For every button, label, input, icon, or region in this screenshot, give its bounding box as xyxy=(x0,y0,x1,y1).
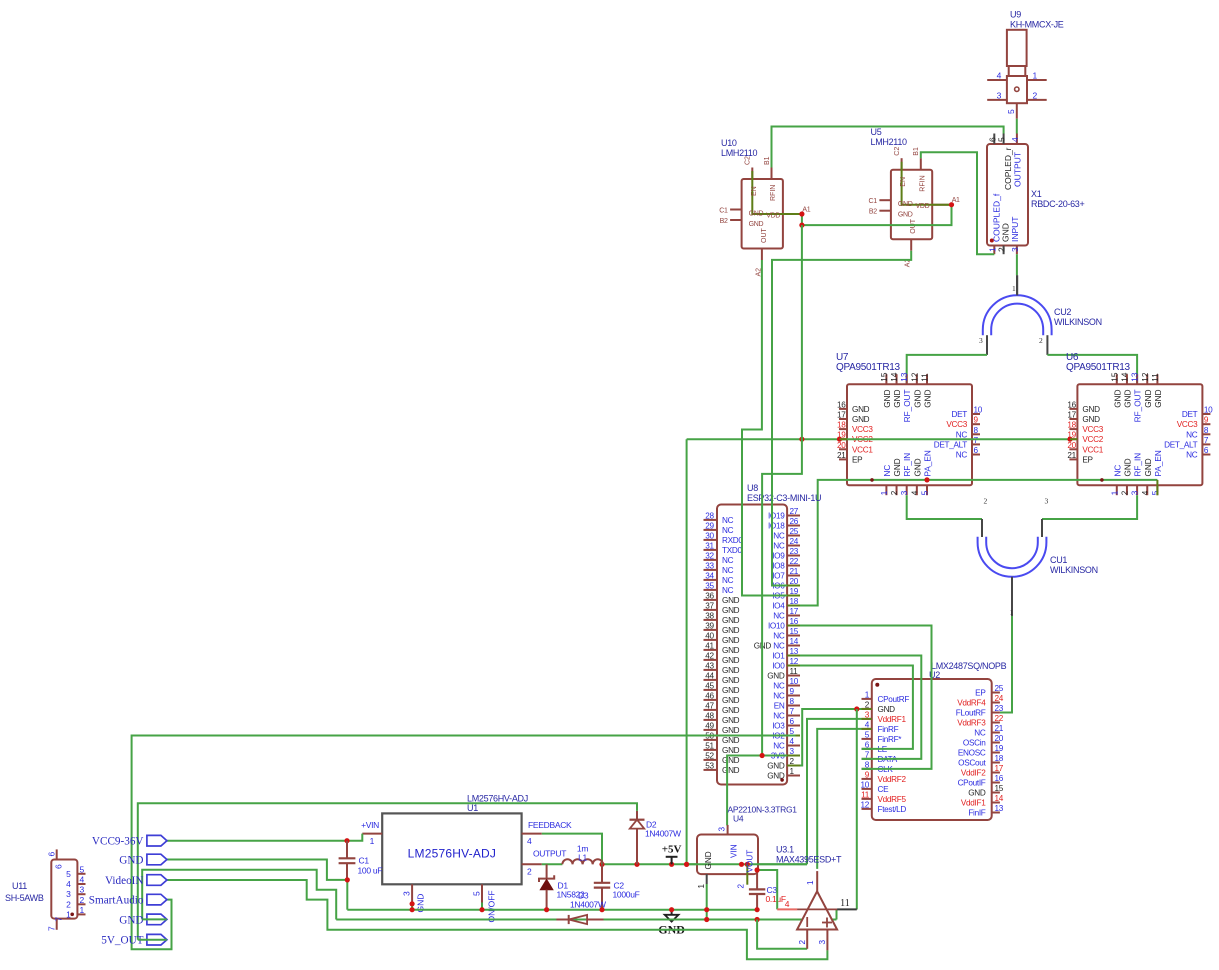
junction U5.A1 xyxy=(949,202,954,207)
svg-text:CE: CE xyxy=(878,785,890,794)
svg-text:GND: GND xyxy=(878,705,896,714)
svg-text:21: 21 xyxy=(995,724,1004,733)
svg-text:25: 25 xyxy=(790,527,799,536)
svg-text:TXD0: TXD0 xyxy=(722,546,742,555)
svg-text:1: 1 xyxy=(1010,608,1014,617)
svg-text:NC: NC xyxy=(1113,465,1122,477)
hierarchical label VideoIN xyxy=(105,875,167,887)
svg-text:NC: NC xyxy=(773,742,785,751)
svg-text:WILKINSON: WILKINSON xyxy=(1054,317,1102,327)
svg-text:7: 7 xyxy=(1204,436,1209,445)
svg-text:1: 1 xyxy=(80,905,85,915)
svg-text:NC: NC xyxy=(1186,430,1198,439)
U7 pin names xyxy=(852,389,968,476)
svg-text:1: 1 xyxy=(1012,284,1016,293)
svg-text:18: 18 xyxy=(995,754,1004,763)
CU1 pin numbers xyxy=(984,497,1049,618)
svg-text:RF_IN: RF_IN xyxy=(903,453,912,477)
wire GND2 through label xyxy=(142,918,167,920)
svg-text:6: 6 xyxy=(1204,446,1209,455)
svg-text:L1: L1 xyxy=(578,853,587,863)
svg-text:1: 1 xyxy=(880,490,889,495)
svg-text:2: 2 xyxy=(80,895,85,905)
svg-text:1: 1 xyxy=(697,884,706,889)
junction U4 area xyxy=(739,862,744,867)
svg-text:U1: U1 xyxy=(467,803,478,813)
U10 pin names xyxy=(749,185,781,243)
svg-text:25: 25 xyxy=(995,684,1004,693)
svg-text:GND: GND xyxy=(722,656,740,665)
svg-text:EN: EN xyxy=(774,702,785,711)
junction C3 rail1 xyxy=(755,907,760,912)
svg-text:RFIN: RFIN xyxy=(920,175,927,191)
svg-text:13: 13 xyxy=(900,372,909,382)
svg-text:12: 12 xyxy=(860,800,869,809)
junction A1 drop on bus xyxy=(799,437,804,442)
svg-text:46: 46 xyxy=(705,691,714,700)
svg-text:VCC1: VCC1 xyxy=(852,445,873,454)
svg-text:11: 11 xyxy=(861,790,870,799)
svg-text:16: 16 xyxy=(837,400,846,409)
svg-text:RBDC-20-63+: RBDC-20-63+ xyxy=(1031,199,1085,209)
wire X1.3 to CU2.1 xyxy=(1016,254,1018,295)
svg-text:DET: DET xyxy=(1182,410,1198,419)
svg-text:SH-5AWB: SH-5AWB xyxy=(5,893,44,903)
wire CU2.2 to U6 RF_OUT xyxy=(1047,355,1137,384)
svg-text:LM2576HV-ADJ: LM2576HV-ADJ xyxy=(467,794,528,804)
svg-text:5: 5 xyxy=(921,490,930,495)
svg-text:7: 7 xyxy=(974,436,979,445)
junction C3 rail2 xyxy=(755,917,760,922)
svg-text:31: 31 xyxy=(705,541,714,550)
junction U1 pin3 xyxy=(410,901,415,912)
junction U4 GND rail1 xyxy=(704,907,709,922)
svg-text:14: 14 xyxy=(1120,372,1129,382)
wire SmartAudio to U8 IO2 xyxy=(132,736,796,950)
svg-text:3: 3 xyxy=(80,885,85,895)
svg-text:3: 3 xyxy=(1131,490,1140,495)
junction U4 VOUT xyxy=(745,862,750,867)
svg-text:U10: U10 xyxy=(721,138,737,148)
connector U9 KH-MMCX-JE body xyxy=(987,30,1046,119)
svg-text:39: 39 xyxy=(705,621,714,630)
svg-text:GND: GND xyxy=(722,626,740,635)
svg-text:GND: GND xyxy=(722,616,740,625)
svg-text:VDD: VDD xyxy=(916,203,930,210)
svg-text:5: 5 xyxy=(1006,109,1016,114)
svg-text:GND: GND xyxy=(968,789,986,798)
label U4 refdes xyxy=(728,805,798,824)
svg-text:CPoutRF: CPoutRF xyxy=(878,695,910,704)
svg-text:17: 17 xyxy=(790,607,799,616)
svg-text:GND: GND xyxy=(722,686,740,695)
svg-text:17: 17 xyxy=(837,411,846,420)
svg-text:+5V: +5V xyxy=(662,844,682,856)
svg-text:22: 22 xyxy=(790,557,799,566)
junction C1 top xyxy=(344,838,349,843)
inductor L1 xyxy=(562,859,602,864)
U6 pin numbers xyxy=(1067,372,1213,495)
QPA VCC2 stub overlays xyxy=(840,438,1078,440)
svg-text:34: 34 xyxy=(705,571,714,580)
svg-text:4: 4 xyxy=(910,490,919,495)
wire U1 GND pin to rail xyxy=(411,903,413,910)
svg-text:IO1: IO1 xyxy=(772,652,785,661)
label U8 refdes xyxy=(747,483,821,503)
svg-text:IO7: IO7 xyxy=(772,572,785,581)
svg-text:5V_OUT: 5V_OUT xyxy=(101,935,143,947)
svg-text:NC: NC xyxy=(773,532,785,541)
svg-text:13: 13 xyxy=(1131,372,1140,382)
U6 pin names xyxy=(1082,389,1198,476)
svg-text:7: 7 xyxy=(47,926,57,931)
wire 3V3 node at U8 xyxy=(727,756,795,826)
svg-text:6: 6 xyxy=(54,864,64,869)
label U10 refdes xyxy=(721,138,758,158)
svg-text:GND: GND xyxy=(722,726,740,735)
junction VCC bus drop xyxy=(684,862,689,867)
svg-text:9: 9 xyxy=(1204,416,1209,425)
svg-text:EP: EP xyxy=(1082,455,1093,464)
svg-text:6: 6 xyxy=(790,717,795,726)
svg-text:MAX4395ESD+T: MAX4395ESD+T xyxy=(776,855,842,865)
wire 5V_OUT to D2 top xyxy=(138,803,637,939)
svg-text:GND: GND xyxy=(722,646,740,655)
capacitor C1 xyxy=(339,841,356,880)
svg-text:18: 18 xyxy=(837,421,846,430)
svg-text:VddRF2: VddRF2 xyxy=(878,775,907,784)
label C3 value xyxy=(766,885,786,904)
U1 pin numbers xyxy=(370,836,532,896)
junction U7 PA_EN xyxy=(924,477,929,482)
hierarchical label GND xyxy=(119,914,167,926)
U2 stub overlays VddRF1 FinRF xyxy=(862,719,872,729)
U2 pin numbers xyxy=(860,684,1003,813)
U5 pin numbers xyxy=(869,147,961,268)
svg-text:GND: GND xyxy=(1113,389,1122,407)
label U1 refdes xyxy=(467,794,528,814)
U8 internal dot xyxy=(780,778,784,782)
svg-text:45: 45 xyxy=(705,681,714,690)
svg-text:10: 10 xyxy=(860,780,869,789)
svg-text:14: 14 xyxy=(790,637,799,646)
svg-text:VCC9-36V: VCC9-36V xyxy=(92,836,144,848)
svg-text:GND: GND xyxy=(893,458,902,476)
svg-text:PA_EN: PA_EN xyxy=(924,450,933,476)
svg-text:NC: NC xyxy=(722,526,734,535)
U1 title xyxy=(408,847,496,861)
svg-text:OUT: OUT xyxy=(761,228,768,244)
svg-text:1: 1 xyxy=(806,880,815,885)
svg-text:11: 11 xyxy=(921,373,930,382)
wire CU1.1 to U2 FLoutRF xyxy=(1000,616,1012,713)
svg-text:GND: GND xyxy=(722,746,740,755)
label D2 value xyxy=(645,820,681,839)
wire U5.A2 to U8 IO6 xyxy=(772,251,911,586)
svg-text:1000uF: 1000uF xyxy=(613,890,640,900)
svg-text:24: 24 xyxy=(790,537,799,546)
U2 LE DATA CLK GND stub overlays xyxy=(862,709,872,769)
svg-text:47: 47 xyxy=(705,701,714,710)
svg-text:GND: GND xyxy=(1144,458,1153,476)
RF amplifier U6 QPA9501TR13 body xyxy=(1069,374,1210,495)
diode D2 1N4007W xyxy=(630,811,645,864)
label U5 refdes xyxy=(871,127,908,147)
svg-text:1: 1 xyxy=(370,836,375,846)
CU2 pin numbers xyxy=(979,284,1043,345)
svg-text:15: 15 xyxy=(1110,372,1119,382)
capacitor C3 xyxy=(749,870,765,910)
U4 VOUT pin overlay xyxy=(746,864,748,884)
svg-text:9: 9 xyxy=(790,687,795,696)
svg-text:4: 4 xyxy=(1010,137,1020,142)
svg-text:U5: U5 xyxy=(871,127,882,137)
svg-text:PA_EN: PA_EN xyxy=(1154,450,1163,476)
svg-text:IO3: IO3 xyxy=(772,722,785,731)
svg-text:GND: GND xyxy=(722,766,740,775)
svg-text:23: 23 xyxy=(995,704,1004,713)
wire U8.2 GND to U2.2 xyxy=(796,709,862,766)
svg-text:GND: GND xyxy=(722,706,740,715)
svg-text:LMX2487SQ/NOPB: LMX2487SQ/NOPB xyxy=(931,661,1007,671)
svg-text:IO8: IO8 xyxy=(772,562,785,571)
wire PA_EN net from U8 IO4 xyxy=(796,480,1158,606)
svg-text:8: 8 xyxy=(974,426,979,435)
op-amp U3.1 MAX4395ESD+T xyxy=(777,871,857,950)
svg-text:1: 1 xyxy=(790,767,795,776)
svg-text:7: 7 xyxy=(790,707,795,716)
svg-text:NC: NC xyxy=(773,632,785,641)
svg-text:GND: GND xyxy=(704,851,713,869)
svg-text:2: 2 xyxy=(527,867,532,877)
U11 pin1 dot xyxy=(70,913,74,917)
svg-text:4: 4 xyxy=(80,875,85,885)
svg-text:26: 26 xyxy=(790,517,799,526)
svg-text:OUTPUT: OUTPUT xyxy=(533,849,566,859)
svg-text:4: 4 xyxy=(785,899,790,909)
CU2 pins xyxy=(987,275,1047,355)
svg-text:GND: GND xyxy=(913,458,922,476)
svg-text:IO18: IO18 xyxy=(768,522,785,531)
svg-text:44: 44 xyxy=(705,671,714,680)
svg-text:NC: NC xyxy=(956,430,968,439)
svg-text:VideoIN: VideoIN xyxy=(105,875,143,887)
svg-text:B2: B2 xyxy=(720,218,728,225)
U8 stub overlays xyxy=(787,586,800,766)
svg-text:IO4: IO4 xyxy=(772,602,785,611)
svg-text:NC: NC xyxy=(773,682,785,691)
svg-text:GND: GND xyxy=(893,389,902,407)
ground symbol GND xyxy=(658,910,685,937)
coupler CU2 WILKINSON arc xyxy=(983,295,1052,335)
U8 pin names xyxy=(722,512,785,781)
svg-text:RF_IN: RF_IN xyxy=(1134,453,1143,477)
svg-text:EN: EN xyxy=(900,177,907,187)
svg-text:C1: C1 xyxy=(359,856,370,866)
label U9 refdes xyxy=(1010,10,1064,30)
svg-text:NC: NC xyxy=(773,642,785,651)
svg-text:EP: EP xyxy=(975,689,986,698)
label L1 value xyxy=(577,844,588,863)
svg-text:GND: GND xyxy=(722,716,740,725)
svg-text:DET: DET xyxy=(952,410,968,419)
wire U2 FinRF to opamp out xyxy=(817,729,861,869)
wire U4 GND pin to rails xyxy=(706,884,708,920)
svg-text:NC: NC xyxy=(722,566,734,575)
svg-text:51: 51 xyxy=(705,741,714,750)
svg-text:3: 3 xyxy=(402,891,412,896)
svg-text:3: 3 xyxy=(1045,497,1049,506)
wire GND to opamp pin11 xyxy=(856,709,858,910)
regulator U4 AP2210N-3.3TRG1 body xyxy=(697,825,758,884)
svg-text:8: 8 xyxy=(1204,426,1209,435)
svg-text:12: 12 xyxy=(910,372,919,382)
wire GND to opamp pin2 xyxy=(757,920,807,949)
wire U8 IO10 to U2 CLK xyxy=(796,626,932,769)
svg-text:C2: C2 xyxy=(894,147,901,156)
svg-text:VCC1: VCC1 xyxy=(1082,445,1103,454)
svg-text:GND: GND xyxy=(1154,389,1163,407)
svg-text:1N4007W: 1N4007W xyxy=(570,900,606,910)
svg-text:1: 1 xyxy=(66,909,71,919)
svg-text:LMH2110: LMH2110 xyxy=(871,137,908,147)
power detector U5 LMH2110 body xyxy=(879,158,951,251)
svg-text:NC: NC xyxy=(883,465,892,477)
svg-text:B1: B1 xyxy=(764,156,771,165)
junction D2 anode xyxy=(634,862,639,867)
diode D1 1N5822 xyxy=(539,864,554,909)
svg-text:2: 2 xyxy=(890,490,899,495)
svg-text:10: 10 xyxy=(974,406,983,415)
svg-text:20: 20 xyxy=(995,734,1004,743)
U5 pin names xyxy=(898,175,930,233)
svg-text:ESP32-C3-MINI-1U: ESP32-C3-MINI-1U xyxy=(747,493,821,503)
label X1 refdes xyxy=(1031,189,1085,209)
svg-text:4: 4 xyxy=(1141,490,1150,495)
svg-text:28: 28 xyxy=(705,511,714,520)
wire VOUT to opamp supply xyxy=(757,870,777,909)
svg-text:GND: GND xyxy=(767,762,785,771)
svg-text:FinRF*: FinRF* xyxy=(878,735,903,744)
wire U1 ON/OFF to rail xyxy=(481,903,483,910)
label U3.1 refdes xyxy=(776,845,842,865)
svg-text:WILKINSON: WILKINSON xyxy=(1050,565,1098,575)
svg-text:VCC3: VCC3 xyxy=(852,425,873,434)
svg-text:24: 24 xyxy=(995,694,1004,703)
svg-text:32: 32 xyxy=(705,551,714,560)
svg-text:OSCin: OSCin xyxy=(963,739,986,748)
svg-text:GND: GND xyxy=(1144,389,1153,407)
U10 EN-VDD internal wire xyxy=(752,171,802,214)
svg-text:OSCout: OSCout xyxy=(958,759,986,768)
svg-text:49: 49 xyxy=(705,721,714,730)
junction C1 bottom xyxy=(345,877,350,882)
dot U7 EP mark xyxy=(870,478,874,482)
junction U6 VCC2 xyxy=(1067,437,1072,442)
RF amplifier U7 QPA9501TR13 body xyxy=(839,374,980,495)
X1 pin numbers xyxy=(987,137,1020,252)
svg-text:RF_OUT: RF_OUT xyxy=(903,390,912,423)
label C1 value xyxy=(358,856,383,876)
coupler X1 RBDC-20-63+ body xyxy=(987,134,1028,255)
svg-text:KH-MMCX-JE: KH-MMCX-JE xyxy=(1010,20,1064,30)
junction +5V symbol xyxy=(669,862,674,867)
svg-text:14: 14 xyxy=(890,372,899,382)
svg-text:GND: GND xyxy=(722,596,740,605)
svg-text:8: 8 xyxy=(790,697,795,706)
svg-text:C1: C1 xyxy=(869,198,878,205)
svg-text:4: 4 xyxy=(66,879,71,889)
svg-text:IO19: IO19 xyxy=(768,512,785,521)
coupler CU1 WILKINSON arc xyxy=(978,537,1047,577)
junction C3 top xyxy=(755,867,760,872)
svg-text:14: 14 xyxy=(995,794,1004,803)
svg-text:IO0: IO0 xyxy=(772,662,785,671)
svg-text:11: 11 xyxy=(790,667,799,676)
svg-text:VCC3: VCC3 xyxy=(1082,425,1103,434)
svg-text:2: 2 xyxy=(1039,336,1043,345)
svg-text:9: 9 xyxy=(865,770,870,779)
svg-text:RFIN: RFIN xyxy=(770,185,777,201)
svg-text:VOUT: VOUT xyxy=(746,850,755,873)
svg-text:5: 5 xyxy=(80,864,85,874)
label U11 refdes xyxy=(5,881,44,903)
svg-text:EP: EP xyxy=(852,455,863,464)
svg-text:15: 15 xyxy=(995,784,1004,793)
svg-text:VCC2: VCC2 xyxy=(1082,435,1103,444)
svg-text:3: 3 xyxy=(66,889,71,899)
junction A1 bus xyxy=(799,223,804,228)
svg-text:GND: GND xyxy=(722,666,740,675)
svg-text:LM2576HV-ADJ: LM2576HV-ADJ xyxy=(408,847,496,861)
junction U10.A1 xyxy=(799,211,804,216)
svg-text:NC: NC xyxy=(974,729,986,738)
svg-text:3: 3 xyxy=(979,336,983,345)
svg-text:ON/OFF: ON/OFF xyxy=(487,890,497,922)
svg-text:IO9: IO9 xyxy=(772,552,785,561)
svg-text:FEEDBACK: FEEDBACK xyxy=(528,820,572,830)
U8 pin numbers xyxy=(705,507,798,776)
wire VCC2 bus drop to +5 rail xyxy=(686,439,688,864)
label U7 refdes xyxy=(836,352,901,373)
svg-text:NC: NC xyxy=(956,451,968,460)
label CU2 refdes xyxy=(1054,307,1102,327)
svg-text:GND: GND xyxy=(1001,223,1011,242)
power symbol +5V xyxy=(662,844,682,865)
svg-text:2: 2 xyxy=(66,899,71,909)
svg-text:GND: GND xyxy=(722,736,740,745)
U4 pin numbers xyxy=(697,827,746,889)
svg-text:20: 20 xyxy=(1067,441,1076,450)
svg-text:21: 21 xyxy=(1067,451,1076,460)
svg-text:VddRF3: VddRF3 xyxy=(957,719,986,728)
svg-text:FinRF: FinRF xyxy=(878,725,899,734)
svg-text:VDD: VDD xyxy=(766,213,780,220)
svg-text:30: 30 xyxy=(705,531,714,540)
svg-text:GND: GND xyxy=(722,756,740,765)
svg-text:27: 27 xyxy=(790,507,799,516)
svg-text:15: 15 xyxy=(880,372,889,382)
svg-text:NC: NC xyxy=(773,542,785,551)
U3.1 pin numbers xyxy=(785,880,850,945)
svg-text:1: 1 xyxy=(1110,490,1119,495)
wire U10.A1 to U5.A1 xyxy=(802,205,952,225)
svg-text:QPA9501TR13: QPA9501TR13 xyxy=(836,362,901,373)
svg-text:3: 3 xyxy=(900,490,909,495)
svg-text:2: 2 xyxy=(997,247,1007,252)
junction D1 bottom xyxy=(544,907,549,912)
svg-text:GND: GND xyxy=(852,415,870,424)
